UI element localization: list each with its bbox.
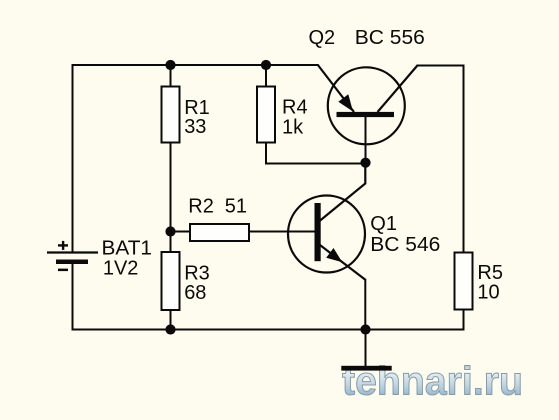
svg-text:10: 10 <box>477 281 499 303</box>
resistor R4 <box>257 87 275 143</box>
svg-text:51: 51 <box>225 195 247 217</box>
wire bottom horizontal <box>72 329 465 331</box>
svg-text:Q2: Q2 <box>309 27 336 49</box>
wire R2 right to Q1 base <box>249 231 316 233</box>
svg-text:Q1: Q1 <box>370 213 397 235</box>
resistor R5 <box>455 253 473 310</box>
wire right vertical upper <box>463 65 465 253</box>
svg-text:68: 68 <box>184 282 206 304</box>
resistor R3 <box>162 252 180 310</box>
wire top horizontal right <box>417 65 465 67</box>
wire left vertical upper <box>72 64 74 252</box>
svg-text:1k: 1k <box>282 116 304 138</box>
wire R1 top <box>170 65 172 86</box>
svg-text:1V2: 1V2 <box>103 257 138 279</box>
svg-text:33: 33 <box>184 116 206 138</box>
battery BAT1 <box>47 241 98 271</box>
wire R3 top stub <box>170 232 172 253</box>
node junction R1/R2/R3 <box>165 226 175 236</box>
node junction top R1 <box>165 60 175 70</box>
resistor R1 <box>162 87 180 143</box>
wire R2 left <box>171 231 191 233</box>
svg-text:BC 556: BC 556 <box>355 27 425 49</box>
svg-text:BC 546: BC 546 <box>370 234 440 256</box>
wire top horizontal left <box>72 64 319 66</box>
wire R1 bottom <box>170 144 172 233</box>
ground <box>341 330 391 371</box>
wire R3 bottom <box>170 310 172 330</box>
resistor R2 <box>190 224 249 241</box>
transistor Q1 <box>288 164 366 331</box>
svg-text:R2: R2 <box>188 195 214 217</box>
wire left vertical lower <box>72 262 74 331</box>
svg-text:R4: R4 <box>282 96 308 118</box>
watermark tehnari.ru <box>342 360 523 404</box>
node junction bottom emitter <box>360 324 370 334</box>
svg-text:BAT1: BAT1 <box>102 237 153 259</box>
wire R4 bottom L-shape <box>266 144 366 164</box>
node junction top R4 <box>261 60 271 70</box>
wire right vertical lower <box>463 310 465 331</box>
wire R4 top <box>265 65 267 86</box>
transistor Q2 <box>318 65 418 165</box>
node junction bottom R3 <box>165 324 175 334</box>
node junction R4/Q2 base/Q1 collector <box>360 158 370 168</box>
